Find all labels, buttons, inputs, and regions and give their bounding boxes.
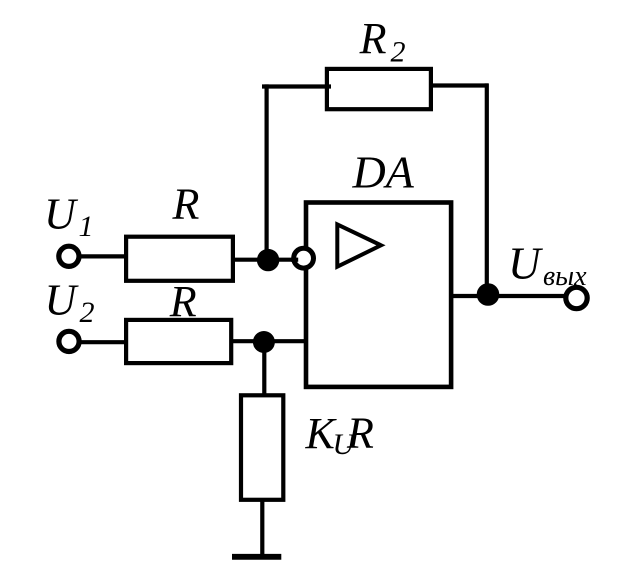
svg-text:U: U [508,239,543,289]
svg-text:DA: DA [352,147,415,198]
svg-text:U: U [44,189,79,238]
svg-text:R: R [359,14,387,63]
svg-text:R: R [169,277,197,326]
svg-text:вых: вых [543,261,587,292]
svg-text:1: 1 [79,210,94,243]
svg-text:R: R [172,180,200,229]
svg-text:2: 2 [391,35,406,68]
svg-text:U: U [45,276,80,325]
svg-text:R: R [346,409,374,458]
svg-text:2: 2 [80,296,95,329]
